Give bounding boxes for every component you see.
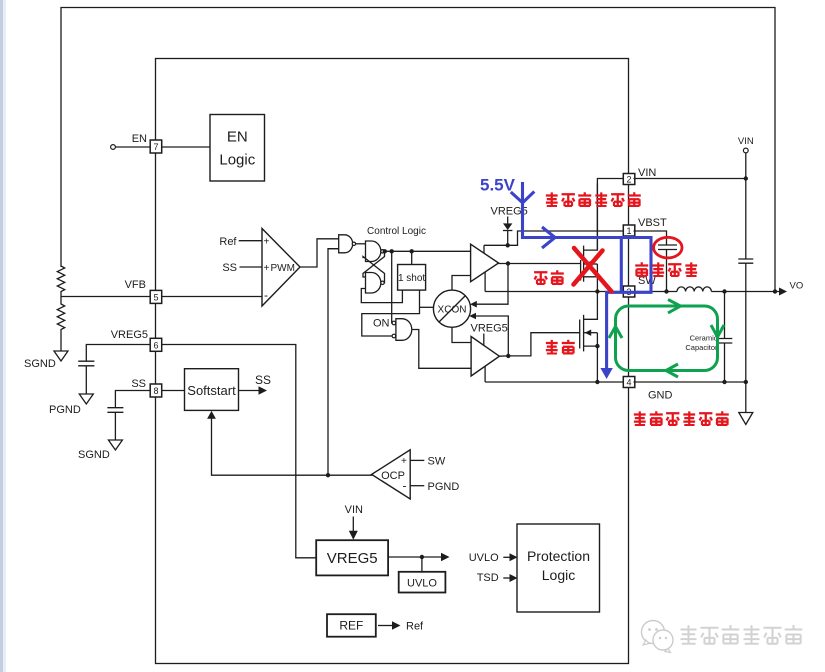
svg-text:8: 8	[153, 386, 158, 396]
svg-text:Ref: Ref	[406, 621, 424, 633]
svg-text:PGND: PGND	[49, 404, 81, 416]
svg-text:-: -	[403, 479, 407, 493]
svg-text:VIN: VIN	[638, 167, 656, 179]
svg-text:7: 7	[153, 142, 158, 152]
VO output arrow	[779, 288, 787, 296]
wire: 1 shot bottom to XCON and ON gate	[362, 290, 420, 336]
wire: GND rail to ground symbol	[745, 382, 747, 413]
pin 4 (GND)	[623, 377, 635, 388]
wire: pin 7 to EN Logic	[162, 146, 210, 148]
wire: pin 8 to external SS cap	[115, 391, 150, 408]
svg-text:TSD: TSD	[477, 572, 499, 584]
svg-text:EN: EN	[132, 133, 147, 145]
block VREG5	[316, 540, 388, 575]
wire: internal GND line	[485, 381, 623, 383]
driver U-HI (upper, high side)	[471, 244, 499, 282]
red text: on (导通)	[546, 340, 575, 354]
svg-text:+: +	[264, 237, 270, 248]
svg-text:SS: SS	[131, 378, 146, 390]
wire: latch output bus	[384, 250, 470, 252]
ground GND (external)	[739, 413, 753, 425]
pin 1 (VBST)	[623, 225, 635, 236]
svg-text:GND: GND	[648, 390, 673, 402]
wire: lower driver output to LS gate	[499, 333, 579, 357]
red annotation: circle around bootstrap cap	[654, 237, 682, 258]
svg-text:EN: EN	[227, 129, 248, 146]
svg-text:SGND: SGND	[78, 449, 110, 461]
block 1 shot	[398, 265, 426, 291]
gate NAND1 (latch upper)	[366, 241, 385, 262]
watermark text (硬件那些事儿)	[681, 625, 803, 644]
capacitor C-OUT (ceramic)	[717, 339, 732, 344]
svg-text:1 shot: 1 shot	[398, 273, 425, 284]
wire: Ref input	[239, 240, 262, 242]
triangle OCP (over-current comparator)	[372, 450, 411, 499]
capacitor C-IN	[738, 259, 753, 263]
svg-text:UVLO: UVLO	[469, 552, 499, 564]
wire: XCON bottom to lower driver input	[452, 327, 471, 342]
svg-text:Control Logic: Control Logic	[367, 226, 426, 237]
watermark logo (speech bubble faces)	[642, 621, 674, 653]
wire: pin 6 to external cap	[86, 345, 150, 362]
diode D1 (bootstrap)	[503, 217, 512, 246]
svg-text:4: 4	[626, 377, 631, 387]
wire: VO feedback loop (right edge, top edge, down left to divider)	[61, 8, 775, 292]
red annotation: X over high-side MOSFET	[574, 248, 612, 292]
red text: inductor discharge loop (电感放电回路)	[634, 411, 729, 425]
svg-text:PWM: PWM	[271, 263, 295, 274]
svg-text:Logic: Logic	[219, 152, 255, 169]
svg-text:Protection: Protection	[527, 548, 590, 564]
wire: pin 3 to inductor	[634, 291, 678, 293]
svg-text:UVLO: UVLO	[407, 578, 437, 590]
green annotation: inductor discharge loop	[609, 300, 724, 378]
svg-text:1: 1	[626, 226, 631, 236]
svg-text:+: +	[264, 263, 270, 274]
gate NAND (PWM input gate)	[328, 235, 356, 253]
resistor R2 (lower divider)	[57, 297, 64, 352]
wire: VIN rail down to input cap	[745, 153, 747, 259]
pin 6 (VREG5)	[150, 338, 162, 351]
wire: pin 2 to HS drain	[597, 179, 623, 251]
IC boundary box	[156, 59, 629, 664]
svg-text:-: -	[264, 288, 268, 302]
left margin strip	[0, 0, 3, 672]
svg-text:2: 2	[626, 174, 631, 184]
blue annotation: capacitor charging loop path	[511, 182, 651, 379]
svg-text:5: 5	[153, 292, 158, 302]
EN input terminal	[111, 145, 116, 150]
wire: OCP output to softstart and PWM gate	[212, 418, 372, 475]
pin 3 (SW)	[623, 286, 635, 297]
wire: upper driver output sense into XCON	[474, 264, 508, 305]
comparator PWM	[262, 229, 300, 307]
wire: pin 6 down to VREG5 block	[162, 345, 317, 558]
gate NAND2 (latch lower)	[366, 273, 385, 294]
wire: pin 8 to softstart	[162, 390, 185, 392]
red text: off (关闭)	[534, 270, 564, 284]
capacitor C-SS (external)	[107, 408, 123, 413]
ground SGND (below divider)	[54, 351, 68, 361]
pin 5 (VFB)	[150, 290, 162, 303]
resistor R1 (upper divider)	[57, 266, 64, 297]
wire: input cap to GND rail	[745, 263, 747, 382]
svg-text:Softstart: Softstart	[187, 383, 236, 398]
wire: REF output arrow	[378, 625, 393, 627]
wire: pin 2 to VIN rail	[634, 178, 746, 180]
svg-text:PGND: PGND	[428, 481, 460, 493]
arrow into softstart bottom	[207, 411, 216, 419]
wire: stub VREG5 to lower driver	[483, 334, 485, 346]
svg-text:XCON: XCON	[438, 304, 467, 315]
svg-text:Ref: Ref	[219, 236, 237, 248]
svg-text:5.5V: 5.5V	[480, 176, 516, 195]
ground PGND	[79, 394, 93, 404]
wire: SS input	[240, 266, 263, 268]
svg-text:REF: REF	[339, 619, 363, 633]
svg-text:SW: SW	[428, 456, 446, 468]
VIN supply terminal	[743, 148, 748, 153]
svg-text:VREG5: VREG5	[471, 323, 508, 335]
svg-text:VREG5: VREG5	[111, 329, 148, 341]
XCON circle	[433, 290, 470, 327]
wire: ON gate output to lower driver	[412, 330, 471, 369]
svg-text:VIN: VIN	[345, 504, 363, 516]
svg-text:Ceramic: Ceramic	[690, 334, 718, 343]
red text: bootstrap capacitor (自举电容)	[635, 262, 697, 276]
wire: comparator output to NAND	[300, 239, 339, 267]
block Protection Logic	[517, 524, 600, 612]
svg-text:+: +	[401, 456, 407, 467]
wire: latch bus down to ON gate top input	[391, 251, 393, 323]
svg-text:VBST: VBST	[638, 217, 667, 229]
driver U-LO (lower, low side)	[471, 337, 499, 377]
wire: SW node line	[485, 291, 623, 293]
svg-text:VREG5: VREG5	[327, 550, 378, 567]
svg-text:SGND: SGND	[24, 358, 56, 370]
wire: OCP - input (PGND)	[410, 485, 424, 487]
svg-text:VIN: VIN	[738, 136, 754, 147]
EN Logic block	[210, 115, 265, 182]
wire: latch cross-coupling X	[363, 251, 385, 282]
block UVLO	[399, 572, 446, 593]
wire: lower driver ref to GND	[484, 366, 486, 382]
gate ON (AND with inverted inputs)	[373, 318, 412, 341]
svg-text:Logic: Logic	[542, 567, 575, 583]
wire: VREG5 output arrow	[388, 556, 441, 558]
svg-text:SS: SS	[222, 262, 237, 274]
transistor Q2 (low-side MOSFET)	[580, 292, 600, 383]
pin 2 (VIN)	[623, 174, 635, 185]
wire: external GND rail	[634, 381, 746, 383]
inductor L1	[677, 287, 711, 292]
wire: VFB tap to pin 5	[61, 296, 150, 298]
wire: EN terminal to pin 7	[115, 146, 150, 148]
wire: XCON top to upper driver input	[452, 276, 471, 291]
wire: VFB pin to comparator inverting input	[162, 296, 262, 298]
block Softstart	[185, 369, 239, 411]
wire: branch down to UVLO block	[421, 557, 423, 572]
svg-text:Capacitor: Capacitor	[685, 343, 718, 352]
wire: OCP signal up to PWM NAND input	[328, 249, 339, 476]
wire: lower driver output sense into XCON	[474, 316, 508, 356]
wire: VBST supply line (diode to pin 1)	[484, 231, 624, 245]
pin 8 (SS)	[150, 384, 162, 397]
block REF	[327, 614, 376, 637]
svg-text:6: 6	[153, 340, 158, 350]
svg-text:OCP: OCP	[381, 470, 405, 482]
wire: inductor to VO	[711, 291, 779, 293]
svg-text:SS: SS	[255, 373, 271, 387]
wire: OCP + input (SW)	[410, 459, 424, 461]
wire: latch bus into 1 shot top	[411, 251, 413, 264]
capacitor C-VREG5 (external)	[78, 361, 94, 366]
wire: output node to ceramic cap	[724, 292, 726, 339]
wire: softstart SS output arrow	[239, 390, 260, 392]
transistor Q1 (high-side MOSFET)	[581, 184, 598, 292]
wire: stub to upper driver supply	[483, 245, 485, 253]
svg-text:VO: VO	[790, 281, 804, 292]
ground SGND (below SS cap)	[108, 440, 122, 450]
pin 7 (EN)	[150, 140, 162, 153]
svg-text:VFB: VFB	[125, 279, 146, 291]
wire: NAND2 feedback from 1 shot bottom	[361, 289, 402, 303]
wire: NAND out to latch	[356, 243, 366, 245]
wire: pin 1 to bootstrap cap	[634, 231, 667, 245]
wire: upper driver ref to SW	[484, 272, 486, 291]
wire: upper driver output to HS gate	[499, 263, 581, 265]
junction dots on latch output	[383, 249, 387, 253]
svg-text:ON: ON	[373, 318, 390, 330]
wire: VIN arrow into VREG5 block	[352, 517, 354, 532]
red text: capacitor charging loop (电容充电回路)	[546, 192, 641, 206]
capacitor C-BST (bootstrap)	[658, 245, 677, 250]
